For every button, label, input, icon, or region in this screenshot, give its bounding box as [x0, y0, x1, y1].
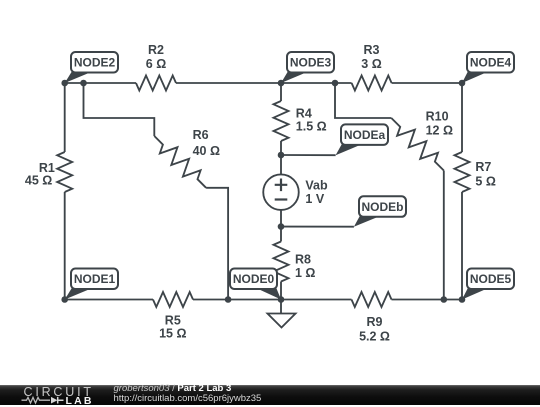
wire bottom-right (R9 to NODE5): [392, 299, 463, 301]
CircuitLab logo resistor-diode glyph and LAB: [21, 396, 116, 406]
junction dot R10 bottom: [441, 296, 448, 303]
Vab minus sign: [275, 198, 288, 200]
resistor R8: [274, 242, 289, 282]
svg-text:1 Ω: 1 Ω: [295, 266, 315, 280]
wire top-middle (R2 to R3 through NODE3): [176, 82, 352, 84]
logo diode bar: [58, 396, 64, 403]
node label NODE0: [230, 269, 281, 300]
wire node B to R8: [280, 227, 282, 242]
svg-text:12 Ω: 12 Ω: [426, 124, 453, 138]
svg-text:R8: R8: [295, 252, 311, 266]
svg-text:3 Ω: 3 Ω: [361, 57, 381, 71]
wire NODE2 branch to R6: [84, 83, 155, 136]
wire bottom-left (NODE1 to R5): [65, 299, 153, 301]
wire bottom-middle (R5 to R9 through NODE0): [193, 299, 352, 301]
svg-text:R4: R4: [296, 106, 312, 120]
svg-text:R9: R9: [367, 315, 383, 329]
svg-text:R2: R2: [148, 43, 164, 57]
wire top-left (NODE2 to R2): [65, 82, 136, 84]
resistor R10 (diagonal): [391, 118, 444, 171]
CircuitLab logo wordmark CIRCUIT: [24, 385, 94, 399]
resistor R2: [136, 76, 176, 91]
wire right lower (R7 to NODE5): [461, 192, 463, 300]
junction dot R6 bottom: [225, 296, 232, 303]
node label NODE2: [65, 52, 118, 83]
svg-text:R7: R7: [475, 160, 491, 174]
node label NODE5: [462, 269, 514, 300]
wire Vab minus terminal to node B: [280, 210, 282, 227]
node NODE4 junction dot: [459, 80, 466, 87]
svg-text:R10: R10: [426, 110, 449, 124]
svg-text:1.5 Ω: 1.5 Ω: [296, 120, 327, 134]
node label NODEa: [336, 124, 388, 155]
svg-text:R6: R6: [193, 128, 209, 142]
logo resistor squiggle: [22, 397, 51, 403]
svg-text:40 Ω: 40 Ω: [193, 144, 220, 158]
wire NODE3 branch to R10: [335, 83, 391, 118]
wire node B stub to NODEb flag: [281, 226, 354, 228]
node A junction dot: [278, 152, 285, 159]
node NODE1 junction dot: [61, 296, 68, 303]
svg-text:Vab: Vab: [305, 178, 328, 192]
node label NODE4: [462, 52, 514, 83]
svg-text:5 Ω: 5 Ω: [475, 174, 495, 188]
svg-text:NODE2: NODE2: [74, 56, 116, 70]
wire node A stub to NODEa flag: [281, 154, 336, 156]
svg-text:NODE0: NODE0: [233, 272, 275, 286]
resistor R7: [455, 152, 470, 192]
wire R4 to node A: [280, 141, 282, 155]
svg-text:NODEb: NODEb: [362, 200, 404, 214]
resistor R4: [274, 101, 289, 141]
svg-text:R3: R3: [364, 43, 380, 57]
node NODE0 junction dot: [278, 296, 285, 303]
resistor R5: [153, 292, 193, 307]
voltage source V1 (Vab) circle: [263, 174, 299, 210]
wire R10 to bottom wire: [443, 171, 445, 300]
node B junction dot: [278, 223, 285, 230]
svg-text:45 Ω: 45 Ω: [25, 174, 52, 188]
svg-text:6 Ω: 6 Ω: [146, 57, 166, 71]
node NODE3 junction dot: [278, 80, 285, 87]
node label NODE3: [281, 52, 334, 83]
resistor R1: [57, 152, 72, 192]
svg-text:NODE1: NODE1: [74, 272, 116, 286]
junction dot NODE3 branch: [332, 80, 339, 87]
svg-text:R5: R5: [165, 314, 181, 328]
wire left upper (NODE2 to R1): [64, 83, 66, 152]
node label NODE1: [65, 269, 118, 300]
wire center upper (NODE3 to R4): [280, 83, 282, 101]
wire top-right (R3 to NODE4): [392, 82, 462, 84]
svg-text:1 V: 1 V: [305, 192, 324, 206]
svg-text:NODE3: NODE3: [290, 56, 332, 70]
svg-text:NODEa: NODEa: [344, 128, 386, 142]
resistor R9: [352, 292, 392, 307]
svg-text:15 Ω: 15 Ω: [159, 327, 186, 341]
logo diode triangle: [51, 396, 58, 403]
wire right upper (NODE4 to R7): [461, 83, 463, 152]
resistor R6 (diagonal): [154, 136, 206, 188]
wire R6 to bottom wire: [206, 188, 228, 300]
svg-text:5.2 Ω: 5.2 Ω: [359, 329, 390, 343]
Vab plus sign: [275, 179, 288, 192]
wire R8 to NODE0: [280, 282, 282, 300]
node label NODEb: [354, 196, 406, 227]
svg-text:NODE4: NODE4: [470, 56, 512, 70]
junction dot NODE2 branch: [80, 80, 87, 87]
ground symbol: [268, 300, 296, 328]
node NODE5 junction dot: [459, 296, 466, 303]
wire node A to Vab plus terminal: [280, 155, 282, 175]
node NODE2 junction dot: [61, 80, 68, 87]
svg-text:NODE5: NODE5: [470, 272, 512, 286]
wire left lower (R1 to NODE1): [64, 192, 66, 300]
resistor R3: [352, 76, 392, 91]
